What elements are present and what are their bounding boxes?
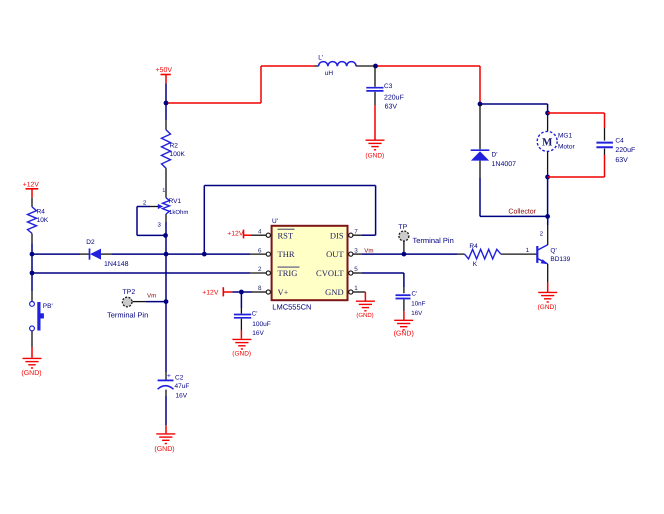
svg-text:1kOhm: 1kOhm xyxy=(169,209,188,216)
svg-text:+50V: +50V xyxy=(156,67,173,74)
svg-text:63V: 63V xyxy=(615,157,628,164)
svg-text:220uF: 220uF xyxy=(615,147,635,154)
svg-text:(GND): (GND) xyxy=(394,329,414,337)
svg-text:Motor: Motor xyxy=(558,143,575,150)
svg-text:R4: R4 xyxy=(37,209,46,216)
svg-text:4: 4 xyxy=(258,228,262,235)
svg-text:GND: GND xyxy=(325,287,343,297)
svg-text:Vm: Vm xyxy=(147,293,156,300)
svg-text:THR: THR xyxy=(278,249,295,259)
svg-text:5: 5 xyxy=(354,266,358,273)
svg-text:2: 2 xyxy=(258,266,262,273)
svg-text:3: 3 xyxy=(354,247,358,254)
svg-text:LMC555CN: LMC555CN xyxy=(272,302,311,311)
svg-text:+12V: +12V xyxy=(227,230,244,237)
svg-text:RST: RST xyxy=(278,230,294,240)
svg-text:PB': PB' xyxy=(43,303,53,310)
svg-text:10nF: 10nF xyxy=(411,300,425,307)
svg-text:Q': Q' xyxy=(550,247,556,254)
svg-text:D': D' xyxy=(492,151,498,158)
svg-text:U': U' xyxy=(272,218,278,225)
svg-text:RV1: RV1 xyxy=(169,198,182,205)
svg-text:100uF: 100uF xyxy=(252,321,270,328)
svg-text:(GND): (GND) xyxy=(365,152,384,159)
svg-text:16V: 16V xyxy=(252,330,264,337)
svg-text:L': L' xyxy=(318,55,323,62)
svg-text:C2: C2 xyxy=(175,374,184,381)
svg-text:220uF: 220uF xyxy=(384,95,404,102)
svg-text:1: 1 xyxy=(354,285,358,292)
svg-text:DIS: DIS xyxy=(330,230,344,240)
svg-text:(GND): (GND) xyxy=(356,312,373,319)
svg-text:MG1: MG1 xyxy=(558,132,572,139)
svg-text:(GND): (GND) xyxy=(232,350,251,357)
svg-text:TRIG: TRIG xyxy=(278,268,298,278)
svg-text:16V: 16V xyxy=(176,393,188,400)
svg-text:D2: D2 xyxy=(86,239,95,246)
svg-text:7: 7 xyxy=(354,228,358,235)
svg-text:R2: R2 xyxy=(170,143,179,150)
svg-text:R4: R4 xyxy=(469,243,478,250)
svg-text:M: M xyxy=(542,137,553,149)
svg-text:CVOLT: CVOLT xyxy=(316,268,344,278)
svg-text:(GND): (GND) xyxy=(21,369,41,377)
svg-text:(GND): (GND) xyxy=(538,304,557,311)
svg-text:1: 1 xyxy=(162,188,165,194)
svg-text:Terminal Pin: Terminal Pin xyxy=(107,311,148,320)
svg-text:Collector: Collector xyxy=(508,208,536,216)
svg-text:+12V: +12V xyxy=(23,181,40,188)
svg-text:uH: uH xyxy=(325,70,334,77)
svg-text:47uF: 47uF xyxy=(175,383,190,390)
svg-text:(GND): (GND) xyxy=(154,445,174,453)
svg-text:1N4148: 1N4148 xyxy=(104,261,129,268)
svg-text:K: K xyxy=(473,261,478,268)
svg-text:+: + xyxy=(167,373,171,380)
svg-text:1N4007: 1N4007 xyxy=(492,161,517,168)
svg-text:Terminal Pin: Terminal Pin xyxy=(413,236,454,245)
svg-text:OUT: OUT xyxy=(326,249,344,259)
svg-text:2: 2 xyxy=(143,199,147,206)
svg-text:TP: TP xyxy=(398,224,407,231)
svg-text:C': C' xyxy=(412,291,418,298)
svg-text:63V: 63V xyxy=(385,103,398,110)
svg-text:C': C' xyxy=(252,310,258,317)
svg-text:100K: 100K xyxy=(170,151,186,158)
svg-text:V+: V+ xyxy=(278,287,289,297)
svg-text:2: 2 xyxy=(540,230,544,237)
svg-text:Vm: Vm xyxy=(364,247,373,254)
svg-text:BD139: BD139 xyxy=(550,256,570,263)
svg-text:8: 8 xyxy=(258,285,262,292)
svg-text:C4: C4 xyxy=(615,137,624,144)
svg-text:C3: C3 xyxy=(384,83,393,90)
svg-text:10K: 10K xyxy=(37,217,49,224)
svg-text:3: 3 xyxy=(158,222,162,229)
svg-text:TP2: TP2 xyxy=(122,289,135,296)
svg-text:16V: 16V xyxy=(411,310,423,317)
svg-text:+12V: +12V xyxy=(202,290,219,297)
svg-text:6: 6 xyxy=(258,247,262,254)
svg-text:1: 1 xyxy=(526,247,530,254)
